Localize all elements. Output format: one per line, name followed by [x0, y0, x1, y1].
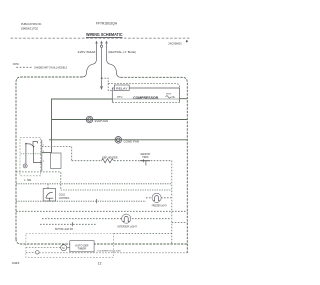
svg-text:3: 3: [43, 151, 44, 153]
svg-text:1 CN WHITE SOLID 40W: 1 CN WHITE SOLID 40W: [97, 250, 122, 252]
hot bus wire left side: [16, 77, 82, 239]
ground arrow down: [100, 86, 103, 90]
overload symbol: [166, 96, 171, 98]
note dash sample: [16, 66, 33, 68]
dashed row inside light box: [21, 153, 42, 155]
light switch art: [26, 142, 42, 164]
timer motor wires: [26, 247, 61, 249]
control cluster dashed box: [20, 137, 41, 175]
freezer light wire: [146, 197, 171, 199]
svg-text:FREEZER LIGHT: FREEZER LIGHT: [152, 204, 167, 208]
cond fan motor: [115, 137, 122, 144]
svg-text:FFTR18G2QA: FFTR18G2QA: [96, 22, 118, 26]
svg-text:CONTROL: CONTROL: [59, 196, 70, 200]
svg-text:0443: 0443: [12, 261, 20, 265]
timer box: [70, 241, 94, 252]
right dashed rail: [171, 161, 173, 244]
svg-text:1: 1: [43, 145, 44, 147]
dashed branch to overload: [108, 83, 179, 87]
compressor box dashed bottom: [112, 101, 179, 103]
svg-text:PROT: PROT: [166, 94, 172, 96]
svg-text:NOTE:: NOTE:: [13, 62, 20, 66]
dashed wire row E: [40, 223, 97, 225]
svg-text:TIMER: TIMER: [78, 248, 87, 251]
compressor box: [112, 88, 179, 102]
row to run wire: [42, 152, 52, 154]
cold control dashed box: [43, 189, 55, 202]
svg-text:COLD: COLD: [59, 192, 66, 196]
relay box: [114, 85, 129, 90]
cord arrow 1: [95, 41, 98, 44]
refr light lamp: [122, 214, 131, 223]
svg-text:COND FAN: COND FAN: [124, 139, 140, 143]
small component box: [51, 153, 62, 169]
svg-text:L. SW: L. SW: [24, 178, 32, 182]
svg-text:(NEUTRAL, LT. BLUE): (NEUTRAL, LT. BLUE): [108, 50, 136, 54]
small mark right of fold line: [186, 40, 188, 42]
dashed wire row C: [16, 200, 146, 202]
svg-text:12: 12: [98, 262, 102, 266]
svg-text:M: M: [62, 246, 64, 250]
svg-text:5995421702: 5995421702: [21, 26, 38, 30]
heater resistor zigzag: [102, 159, 114, 163]
cord arrow 2: [100, 41, 103, 44]
svg-text:COMPRESSOR: COMPRESSOR: [133, 96, 159, 100]
defrost thermostat: [140, 159, 150, 165]
stub to cold control: [47, 184, 49, 189]
dashed wire row F: [114, 233, 172, 235]
dashed branch to relay: [102, 78, 115, 90]
svg-text:INTERIOR LIGHT: INTERIOR LIGHT: [118, 224, 138, 228]
timer motor: [61, 245, 67, 251]
defrost timer dashed box: [26, 234, 114, 258]
cluster right rail: [41, 140, 43, 172]
title underline: [86, 36, 123, 38]
svg-text:DEF HEATER: DEF HEATER: [102, 155, 118, 159]
evap fan motor: [86, 116, 93, 123]
connector wires: [26, 251, 36, 253]
svg-text:24C05M01: 24C05M01: [168, 42, 182, 46]
junction tick C: [95, 199, 97, 203]
cold control switch: [46, 193, 53, 201]
power cord line 2 (ground): [100, 43, 102, 87]
svg-text:THERM: THERM: [142, 156, 148, 159]
small connector circle: [36, 251, 40, 255]
refr light wire: [42, 218, 171, 220]
svg-text:2: 2: [43, 161, 44, 163]
dashed wire row D: [16, 210, 188, 212]
dashed wire row A: [16, 183, 171, 185]
junction on ground line: [101, 77, 103, 79]
freezer light lamp: [152, 193, 161, 202]
cord arrow 3: [105, 41, 108, 44]
compressor run wire: [52, 99, 113, 153]
row to cold control: [16, 172, 61, 190]
svg-text:SHADED ART ON ALL MODELS: SHADED ART ON ALL MODELS: [34, 66, 67, 70]
bottom edge wire: [16, 239, 187, 244]
svg-text:WIRING SCHEMATIC: WIRING SCHEMATIC: [86, 32, 123, 37]
row to defrost jog: [42, 147, 72, 161]
fold dashed line: [11, 37, 191, 39]
svg-text:OL: OL: [172, 95, 176, 99]
junction tick E: [72, 222, 74, 226]
svg-text:115V 60HZ: 115V 60HZ: [77, 50, 95, 54]
evap fan wire: [52, 119, 188, 121]
svg-text:EVAP FAN: EVAP FAN: [95, 119, 109, 123]
power cord line 3 (neutral): [107, 43, 121, 78]
neutral bus wire right side: [121, 77, 188, 253]
defrost wire with heater resistor: [72, 160, 102, 162]
svg-text:RELAY: RELAY: [116, 86, 128, 90]
power cord line 1 (hot): [82, 43, 96, 78]
interior light circle: [23, 164, 27, 168]
cond fan wire: [49, 139, 187, 141]
svg-text:PTC: PTC: [117, 95, 122, 99]
dashed wire row B: [61, 189, 172, 191]
svg-text:BOTTOM LIGHT SW: BOTTOM LIGHT SW: [55, 227, 73, 231]
